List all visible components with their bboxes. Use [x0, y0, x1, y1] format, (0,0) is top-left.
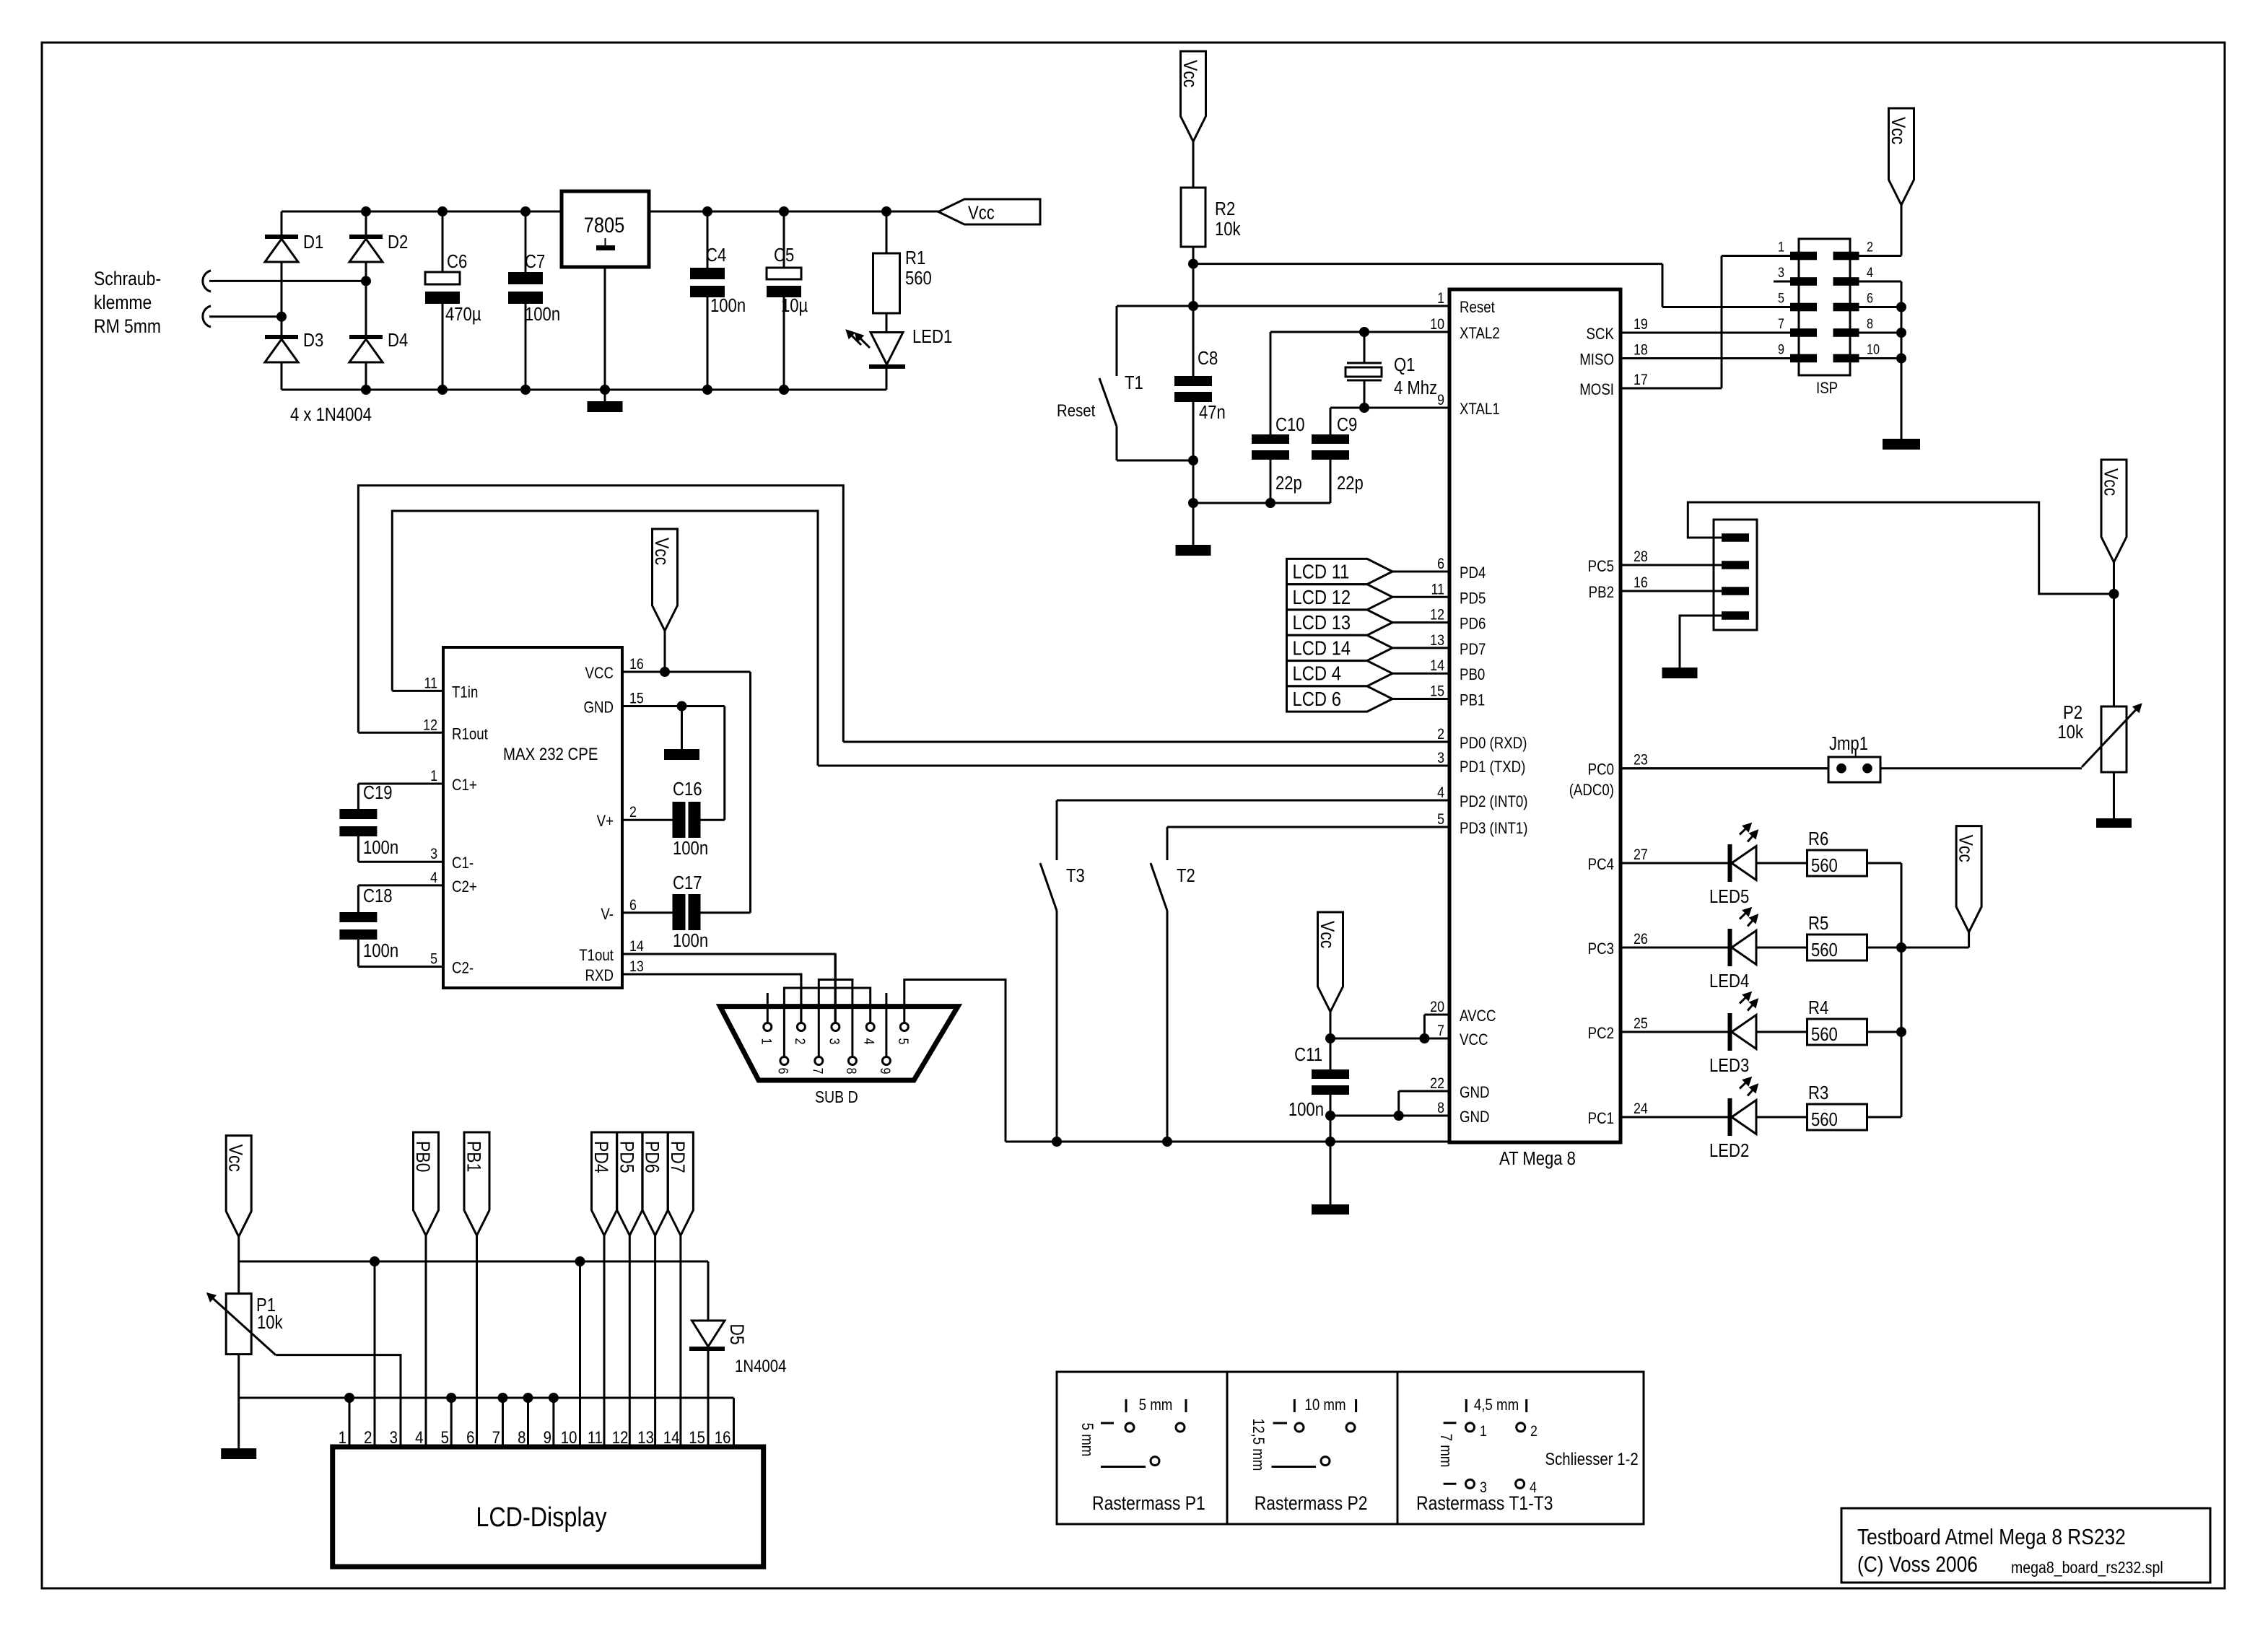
svg-text:D2: D2 [388, 232, 408, 253]
svg-text:V-: V- [601, 906, 614, 923]
svg-text:LCD 12: LCD 12 [1293, 585, 1351, 608]
svg-text:47n: 47n [1199, 402, 1226, 423]
svg-text:1N4004: 1N4004 [735, 1356, 786, 1375]
svg-text:Testboard Atmel Mega 8 RS232: Testboard Atmel Mega 8 RS232 [1857, 1525, 2126, 1549]
svg-text:PD6: PD6 [1460, 616, 1486, 633]
svg-text:6: 6 [1437, 556, 1444, 573]
svg-text:27: 27 [1634, 846, 1648, 864]
svg-text:V+: V+ [597, 813, 614, 831]
svg-text:4: 4 [1867, 265, 1873, 281]
svg-text:2: 2 [1867, 239, 1873, 255]
svg-text:10: 10 [1430, 316, 1444, 333]
svg-text:GND: GND [1460, 1109, 1490, 1126]
svg-text:12: 12 [1430, 606, 1444, 623]
svg-text:9: 9 [878, 1068, 894, 1075]
svg-text:Reset: Reset [1460, 299, 1495, 317]
svg-text:13: 13 [1430, 632, 1444, 649]
svg-text:VCC: VCC [585, 665, 614, 683]
svg-text:PC2: PC2 [1588, 1025, 1614, 1043]
svg-text:SUB D: SUB D [815, 1088, 858, 1107]
svg-text:28: 28 [1634, 548, 1648, 566]
svg-text:Vcc: Vcc [1179, 60, 1201, 87]
svg-text:470µ: 470µ [445, 304, 481, 325]
svg-text:1: 1 [1437, 290, 1444, 307]
svg-text:Vcc: Vcc [1888, 117, 1909, 144]
svg-text:RXD: RXD [585, 968, 614, 985]
svg-text:R1: R1 [905, 248, 925, 268]
svg-text:C8: C8 [1198, 348, 1218, 369]
svg-text:R3: R3 [1808, 1082, 1828, 1103]
svg-text:4 x 1N4004: 4 x 1N4004 [290, 404, 372, 425]
svg-text:MAX 232 CPE: MAX 232 CPE [503, 744, 598, 763]
svg-text:Vcc: Vcc [2100, 468, 2121, 496]
svg-text:D3: D3 [303, 330, 323, 351]
svg-text:18: 18 [1634, 341, 1648, 359]
svg-text:D4: D4 [388, 330, 408, 351]
svg-text:ISP: ISP [1816, 380, 1838, 398]
svg-text:100n: 100n [1288, 1099, 1324, 1120]
svg-text:C2-: C2- [452, 960, 474, 977]
svg-text:8: 8 [518, 1427, 525, 1447]
svg-text:23: 23 [1634, 751, 1648, 769]
svg-text:3: 3 [1778, 265, 1784, 281]
svg-text:Vcc: Vcc [651, 538, 673, 565]
svg-text:PB0: PB0 [412, 1141, 434, 1172]
svg-text:15: 15 [1430, 683, 1444, 700]
svg-text:P2: P2 [2063, 702, 2082, 723]
svg-text:1: 1 [759, 1038, 775, 1045]
svg-text:VCC: VCC [1460, 1032, 1488, 1049]
svg-text:SCK: SCK [1587, 326, 1615, 343]
svg-text:100n: 100n [363, 837, 398, 858]
svg-text:6: 6 [629, 896, 637, 914]
svg-text:C7: C7 [525, 251, 545, 272]
svg-text:20: 20 [1430, 999, 1444, 1016]
svg-text:12,5 mm: 12,5 mm [1249, 1419, 1267, 1471]
svg-text:Rastermass T1-T3: Rastermass T1-T3 [1416, 1492, 1553, 1514]
svg-text:Vcc: Vcc [1317, 921, 1338, 948]
svg-text:12: 12 [612, 1427, 629, 1447]
svg-text:C18: C18 [363, 885, 393, 906]
svg-text:2: 2 [629, 804, 637, 821]
svg-text:C2+: C2+ [452, 879, 477, 896]
svg-text:LCD 11: LCD 11 [1293, 560, 1350, 583]
svg-text:C1-: C1- [452, 855, 474, 872]
svg-text:560: 560 [905, 268, 932, 289]
svg-text:7805: 7805 [584, 213, 625, 237]
svg-text:13: 13 [629, 958, 644, 976]
svg-text:2: 2 [793, 1038, 808, 1045]
svg-text:Schliesser 1-2: Schliesser 1-2 [1545, 1449, 1639, 1469]
svg-text:PB1: PB1 [463, 1141, 484, 1172]
svg-text:R4: R4 [1808, 997, 1828, 1018]
svg-text:PD4: PD4 [1460, 565, 1486, 582]
svg-text:5: 5 [1778, 290, 1784, 306]
svg-text:560: 560 [1811, 940, 1838, 960]
svg-text:10: 10 [1867, 341, 1880, 357]
svg-text:LED2: LED2 [1709, 1140, 1749, 1161]
svg-text:Reset: Reset [1057, 401, 1096, 420]
svg-text:100n: 100n [673, 930, 708, 951]
svg-text:PD6: PD6 [641, 1141, 663, 1173]
svg-text:11: 11 [424, 675, 437, 692]
svg-text:klemme: klemme [94, 292, 152, 313]
svg-text:MISO: MISO [1579, 351, 1614, 369]
svg-text:PD7: PD7 [1460, 642, 1486, 659]
svg-text:5: 5 [1437, 811, 1444, 828]
svg-text:PD0 (RXD): PD0 (RXD) [1460, 735, 1527, 753]
svg-text:PB1: PB1 [1460, 692, 1485, 709]
svg-text:LCD 6: LCD 6 [1293, 687, 1341, 710]
svg-text:1: 1 [339, 1427, 346, 1447]
svg-text:C11: C11 [1294, 1044, 1322, 1065]
svg-text:12: 12 [423, 717, 437, 734]
svg-text:5: 5 [441, 1427, 449, 1447]
svg-text:17: 17 [1634, 372, 1648, 389]
svg-text:PC0: PC0 [1588, 761, 1614, 779]
svg-text:26: 26 [1634, 931, 1648, 948]
svg-text:PB2: PB2 [1589, 585, 1614, 602]
svg-text:C4: C4 [706, 245, 726, 266]
svg-text:8: 8 [1437, 1100, 1444, 1117]
svg-text:C10: C10 [1275, 414, 1305, 435]
svg-text:GND: GND [1460, 1085, 1490, 1102]
svg-text:PD7: PD7 [666, 1141, 688, 1173]
svg-text:100n: 100n [710, 295, 746, 316]
svg-text:6: 6 [1867, 290, 1873, 306]
svg-text:560: 560 [1811, 855, 1838, 876]
svg-text:PD3 (INT1): PD3 (INT1) [1460, 820, 1528, 838]
svg-text:11: 11 [588, 1427, 603, 1447]
svg-text:Vcc: Vcc [1955, 835, 1976, 862]
svg-text:7: 7 [1778, 316, 1784, 332]
svg-text:22p: 22p [1337, 473, 1364, 494]
svg-text:560: 560 [1811, 1109, 1838, 1130]
svg-text:4,5 mm: 4,5 mm [1474, 1397, 1519, 1414]
svg-text:PD2 (INT0): PD2 (INT0) [1460, 794, 1528, 811]
svg-text:C1+: C1+ [452, 777, 477, 795]
svg-text:3: 3 [1437, 750, 1444, 767]
svg-text:LCD 4: LCD 4 [1293, 662, 1341, 685]
svg-text:AT Mega 8: AT Mega 8 [1499, 1148, 1576, 1169]
svg-text:R5: R5 [1808, 913, 1828, 934]
svg-text:4: 4 [415, 1427, 423, 1447]
svg-text:16: 16 [715, 1427, 731, 1447]
svg-text:Rastermass P2: Rastermass P2 [1255, 1492, 1368, 1514]
svg-text:Rastermass P1: Rastermass P1 [1092, 1492, 1205, 1514]
svg-text:LCD 13: LCD 13 [1293, 610, 1351, 634]
svg-text:1: 1 [1778, 239, 1784, 255]
svg-text:Jmp1: Jmp1 [1829, 733, 1868, 754]
svg-text:T1: T1 [1125, 372, 1143, 393]
svg-text:4 Mhz: 4 Mhz [1394, 377, 1437, 398]
svg-text:C5: C5 [774, 245, 794, 266]
svg-text:LCD 14: LCD 14 [1293, 636, 1351, 660]
svg-text:3: 3 [430, 846, 437, 863]
svg-text:25: 25 [1634, 1015, 1648, 1033]
svg-text:5: 5 [430, 950, 437, 968]
svg-text:PB0: PB0 [1460, 667, 1485, 684]
svg-text:PD1 (TXD): PD1 (TXD) [1460, 759, 1525, 776]
svg-text:10 mm: 10 mm [1304, 1397, 1345, 1414]
svg-text:PD4: PD4 [590, 1141, 612, 1173]
svg-text:5 mm: 5 mm [1078, 1423, 1096, 1457]
svg-text:PC3: PC3 [1588, 941, 1614, 958]
svg-text:9: 9 [544, 1427, 551, 1447]
svg-text:Vcc: Vcc [968, 203, 995, 224]
svg-text:3: 3 [390, 1427, 398, 1447]
svg-text:2: 2 [1530, 1423, 1538, 1440]
svg-text:LED4: LED4 [1709, 971, 1749, 992]
svg-text:R1out: R1out [452, 726, 488, 743]
svg-text:Vcc: Vcc [224, 1145, 246, 1172]
svg-text:R2: R2 [1215, 198, 1235, 219]
svg-text:5: 5 [895, 1038, 911, 1045]
svg-text:9: 9 [1437, 392, 1444, 409]
svg-text:Q1: Q1 [1394, 354, 1415, 375]
svg-text:14: 14 [629, 938, 644, 955]
svg-text:19: 19 [1634, 316, 1648, 333]
svg-text:C6: C6 [447, 251, 467, 272]
svg-text:3: 3 [826, 1038, 842, 1045]
svg-text:LED3: LED3 [1709, 1055, 1749, 1076]
svg-text:PC1: PC1 [1588, 1111, 1614, 1128]
svg-text:4: 4 [861, 1038, 877, 1045]
svg-text:2: 2 [364, 1427, 372, 1447]
svg-text:C19: C19 [363, 782, 393, 803]
svg-text:T2: T2 [1177, 865, 1195, 886]
svg-text:LED1: LED1 [912, 326, 952, 347]
svg-text:C9: C9 [1337, 414, 1357, 435]
svg-text:D1: D1 [303, 232, 323, 253]
svg-text:LCD-Display: LCD-Display [476, 1502, 607, 1533]
svg-text:9: 9 [1778, 341, 1784, 357]
svg-text:14: 14 [663, 1427, 680, 1447]
svg-text:22: 22 [1430, 1075, 1444, 1093]
svg-text:C17: C17 [673, 872, 702, 893]
svg-text:6: 6 [466, 1427, 474, 1447]
svg-text:PD5: PD5 [616, 1141, 637, 1173]
svg-text:R6: R6 [1808, 828, 1828, 849]
svg-text:15: 15 [689, 1427, 705, 1447]
svg-text:6: 6 [775, 1068, 791, 1075]
svg-text:T3: T3 [1066, 865, 1085, 886]
svg-text:Schraub-: Schraub- [94, 268, 161, 289]
svg-text:10µ: 10µ [781, 295, 808, 316]
svg-text:(ADC0): (ADC0) [1569, 782, 1614, 800]
svg-text:4: 4 [1437, 784, 1444, 802]
svg-text:XTAL1: XTAL1 [1460, 401, 1500, 419]
svg-text:PD5: PD5 [1460, 590, 1486, 608]
svg-text:8: 8 [844, 1068, 860, 1075]
svg-text:PC4: PC4 [1588, 857, 1614, 874]
svg-text:2: 2 [1437, 726, 1444, 743]
svg-text:T1out: T1out [579, 948, 614, 965]
svg-text:11: 11 [1431, 581, 1444, 598]
svg-text:10: 10 [561, 1427, 577, 1447]
svg-text:8: 8 [1867, 316, 1873, 332]
svg-text:4: 4 [430, 870, 437, 887]
svg-text:560: 560 [1811, 1024, 1838, 1045]
svg-text:16: 16 [1634, 574, 1648, 592]
svg-text:C16: C16 [673, 779, 702, 800]
svg-text:10k: 10k [2057, 722, 2083, 743]
svg-text:16: 16 [629, 656, 644, 673]
svg-text:LED5: LED5 [1709, 886, 1749, 907]
svg-text:100n: 100n [363, 940, 398, 961]
svg-text:PC5: PC5 [1588, 559, 1614, 576]
svg-text:1: 1 [430, 768, 437, 785]
svg-text:7: 7 [810, 1068, 826, 1075]
svg-text:24: 24 [1634, 1100, 1648, 1118]
svg-text:MOSI: MOSI [1579, 382, 1614, 399]
svg-text:RM 5mm: RM 5mm [94, 315, 161, 337]
svg-text:D5: D5 [726, 1323, 748, 1344]
svg-text:XTAL2: XTAL2 [1460, 325, 1500, 343]
svg-text:15: 15 [629, 690, 644, 707]
svg-text:mega8_board_rs232.spl: mega8_board_rs232.spl [2011, 1559, 2163, 1577]
svg-text:10k: 10k [257, 1312, 283, 1333]
svg-text:100n: 100n [525, 304, 560, 325]
svg-text:7 mm: 7 mm [1437, 1434, 1454, 1468]
svg-text:5 mm: 5 mm [1139, 1397, 1173, 1414]
svg-text:7: 7 [1437, 1023, 1444, 1040]
svg-text:AVCC: AVCC [1460, 1008, 1496, 1025]
svg-text:GND: GND [583, 699, 614, 717]
svg-text:22p: 22p [1275, 473, 1302, 494]
svg-text:14: 14 [1430, 657, 1444, 675]
svg-text:1: 1 [1480, 1423, 1487, 1440]
svg-text:T1in: T1in [452, 684, 478, 701]
svg-text:10k: 10k [1215, 219, 1241, 240]
svg-text:(C) Voss 2006: (C) Voss 2006 [1857, 1552, 1978, 1577]
svg-text:13: 13 [637, 1427, 654, 1447]
svg-text:100n: 100n [673, 838, 708, 859]
svg-text:7: 7 [492, 1427, 500, 1447]
